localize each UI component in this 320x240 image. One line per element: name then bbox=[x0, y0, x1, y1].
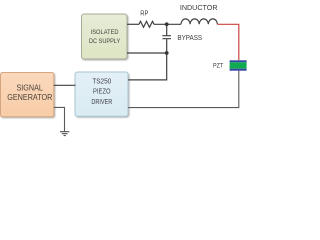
svg-text:DC SUPPLY: DC SUPPLY bbox=[89, 38, 121, 45]
wire: TS250 output to PZT bottom bbox=[128, 71, 239, 108]
inductor L bbox=[181, 19, 217, 24]
svg-text:PZT: PZT bbox=[213, 63, 223, 70]
svg-text:INDUCTOR: INDUCTOR bbox=[180, 3, 218, 12]
PZT transducer ceramic bbox=[230, 62, 247, 68]
node: bypass junction top bbox=[165, 22, 169, 26]
wire: inductor to PZT top (red) bbox=[217, 24, 238, 60]
PZT transducer top electrode bbox=[230, 60, 247, 62]
resistor RP bbox=[139, 21, 154, 27]
svg-text:RP: RP bbox=[140, 11, 148, 18]
wire: DC supply top output bbox=[127, 23, 139, 25]
capacitor BYPASS top lead bbox=[166, 24, 168, 35]
wire: signal generator output to TS250 input bbox=[54, 84, 76, 86]
node: bypass junction bottom bbox=[165, 51, 169, 55]
wire: signal generator ground lead bbox=[54, 107, 65, 131]
PZT transducer bottom electrode bbox=[230, 69, 247, 71]
wire: DC supply bottom output bbox=[127, 52, 167, 54]
svg-text:BYPASS: BYPASS bbox=[177, 33, 202, 42]
svg-text:PIEZO: PIEZO bbox=[93, 89, 111, 96]
wire: junction down to TS250 supply pin bbox=[128, 53, 167, 80]
svg-text:GENERATOR: GENERATOR bbox=[7, 93, 53, 102]
svg-text:SIGNAL: SIGNAL bbox=[17, 83, 44, 92]
svg-text:ISOLATED: ISOLATED bbox=[91, 29, 119, 36]
capacitor BYPASS plates bbox=[162, 36, 171, 39]
signal generator block bbox=[1, 73, 54, 117]
isolated DC supply block bbox=[82, 14, 128, 59]
ground symbol bbox=[60, 132, 69, 136]
TS250 piezo driver block bbox=[75, 72, 128, 116]
capacitor BYPASS bottom lead bbox=[166, 39, 168, 53]
svg-text:DRIVER: DRIVER bbox=[91, 99, 112, 106]
wire: resistor to inductor bbox=[154, 23, 181, 25]
svg-text:TS250: TS250 bbox=[92, 79, 111, 86]
